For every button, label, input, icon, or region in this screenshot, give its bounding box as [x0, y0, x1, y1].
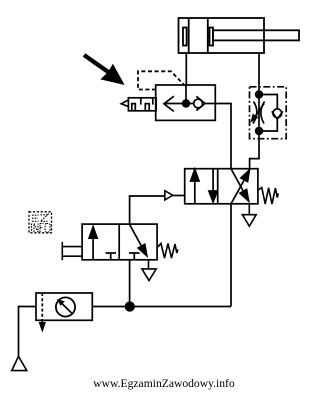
- wire: supply to regulator: [19, 307, 37, 357]
- annotation dashed outline: [138, 71, 184, 89]
- wire: flow control to valve top port 2: [250, 131, 259, 169]
- 3/2 valve: [82, 224, 157, 260]
- spring of 4/2 valve: [258, 188, 278, 205]
- exhaust triangle of 3/2 valve: [142, 260, 156, 281]
- silencer: [121, 98, 156, 111]
- wire: cylinder left port down: [185, 53, 187, 85]
- wire: regulator to junction: [92, 306, 130, 308]
- wire: manifold junction to riser: [130, 306, 231, 308]
- flow control valve enclosure: [250, 87, 287, 139]
- push actuator of 3/2 valve: [62, 242, 82, 260]
- cylinder: [179, 18, 300, 53]
- directional valve 4/2: [185, 169, 258, 204]
- wire: pilot triangle to valve: [173, 195, 185, 197]
- annotation arrow: [84, 55, 124, 84]
- air supply source triangle: [12, 356, 27, 370]
- svg-text:www.EgzaminZawodowy.info: www.EgzaminZawodowy.info: [93, 377, 235, 390]
- junction dot: [126, 302, 135, 311]
- quick-exhaust valve: [156, 85, 216, 120]
- spring of 3/2 valve: [158, 244, 178, 259]
- pilot triangle: [165, 191, 173, 200]
- wire: valve bottom port to junction riser: [230, 204, 232, 307]
- throttle-check valve internals: [252, 87, 283, 134]
- wire: quick-exhaust output to valve top port 1: [215, 104, 231, 169]
- wire: 3/2 output to pilot of 4/2: [130, 196, 165, 224]
- watermark EZ INFO: [29, 212, 52, 233]
- wire: junction up to 3/2 valve: [129, 260, 131, 307]
- regulator unit: [36, 293, 92, 330]
- exhaust triangle of 4/2 valve: [242, 204, 256, 226]
- wire: cylinder right port down: [258, 53, 260, 87]
